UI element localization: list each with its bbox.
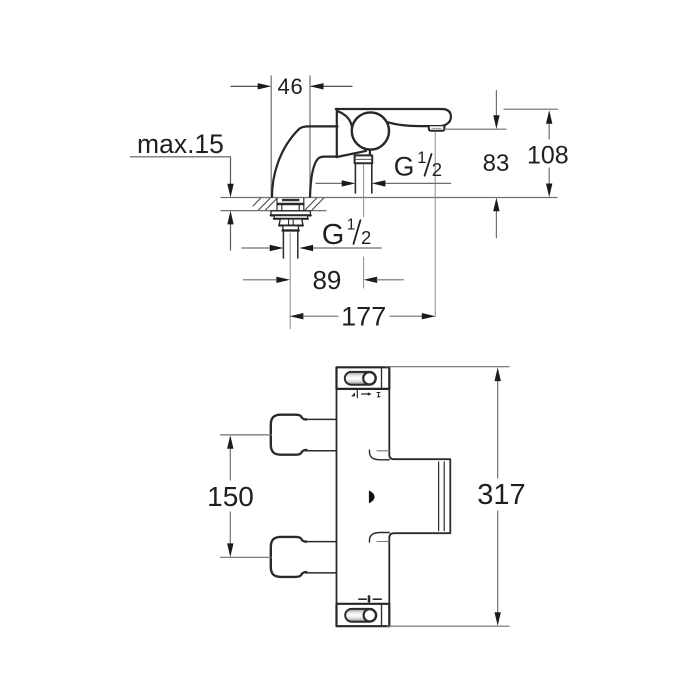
G half upper label xyxy=(394,149,442,182)
dim 46 extension lines xyxy=(271,76,310,196)
spout inner double lines xyxy=(439,462,445,531)
dim G half upper line and arrows xyxy=(316,180,451,186)
svg-text:46: 46 xyxy=(277,74,303,99)
thermostat body sides xyxy=(337,389,451,604)
bottom beak union xyxy=(369,533,389,543)
locknut xyxy=(279,219,303,226)
body dark mark xyxy=(369,490,375,503)
bottom handle stem xyxy=(306,542,337,573)
outlet tab xyxy=(429,126,445,131)
shank centerline xyxy=(289,233,291,329)
max15 leader and arrows xyxy=(131,157,234,250)
top handle knob xyxy=(271,415,307,455)
dim 46 line and arrows xyxy=(231,83,352,89)
dim 108 xyxy=(504,109,558,197)
deck surface lines xyxy=(221,198,557,211)
dim 177 xyxy=(290,313,436,319)
dim G half lower line and arrows xyxy=(242,245,381,251)
dim 317 xyxy=(386,367,509,627)
dim 150 xyxy=(221,435,272,557)
bottom handle knob xyxy=(271,537,307,577)
thermostat top cap xyxy=(337,367,390,389)
svg-text:1: 1 xyxy=(417,149,426,167)
handle collar xyxy=(355,155,373,163)
top handle stem xyxy=(306,419,337,450)
threaded shank pipe xyxy=(283,231,297,258)
shank through deck xyxy=(277,198,304,210)
svg-text:83: 83 xyxy=(483,150,510,177)
handle knob circle xyxy=(352,112,389,149)
dim 83 xyxy=(445,91,506,238)
dim 89 xyxy=(244,277,404,283)
icons above bottom cap xyxy=(359,596,381,601)
svg-text:1: 1 xyxy=(347,217,356,234)
svg-text:317: 317 xyxy=(477,479,525,511)
svg-text:150: 150 xyxy=(207,481,254,512)
svg-text:G: G xyxy=(322,219,345,251)
svg-text:2: 2 xyxy=(432,159,442,180)
svg-text:177: 177 xyxy=(341,301,386,331)
icons under top cap xyxy=(351,390,380,397)
svg-text:G: G xyxy=(394,151,415,181)
svg-text:89: 89 xyxy=(312,265,341,295)
svg-text:108: 108 xyxy=(527,142,569,170)
G half lower label xyxy=(322,217,371,251)
flange below deck xyxy=(271,211,311,219)
thermostat bottom cap xyxy=(337,604,390,626)
pipe below handle xyxy=(355,163,371,193)
deck hatch xyxy=(253,198,324,210)
handle pipe centerline xyxy=(363,164,365,217)
top beak union xyxy=(369,450,389,460)
svg-text:max.15: max.15 xyxy=(137,129,224,159)
outlet centerline xyxy=(434,132,436,317)
faucet body outline xyxy=(272,109,451,197)
nut lower collar xyxy=(283,226,299,231)
svg-text:2: 2 xyxy=(361,227,371,248)
